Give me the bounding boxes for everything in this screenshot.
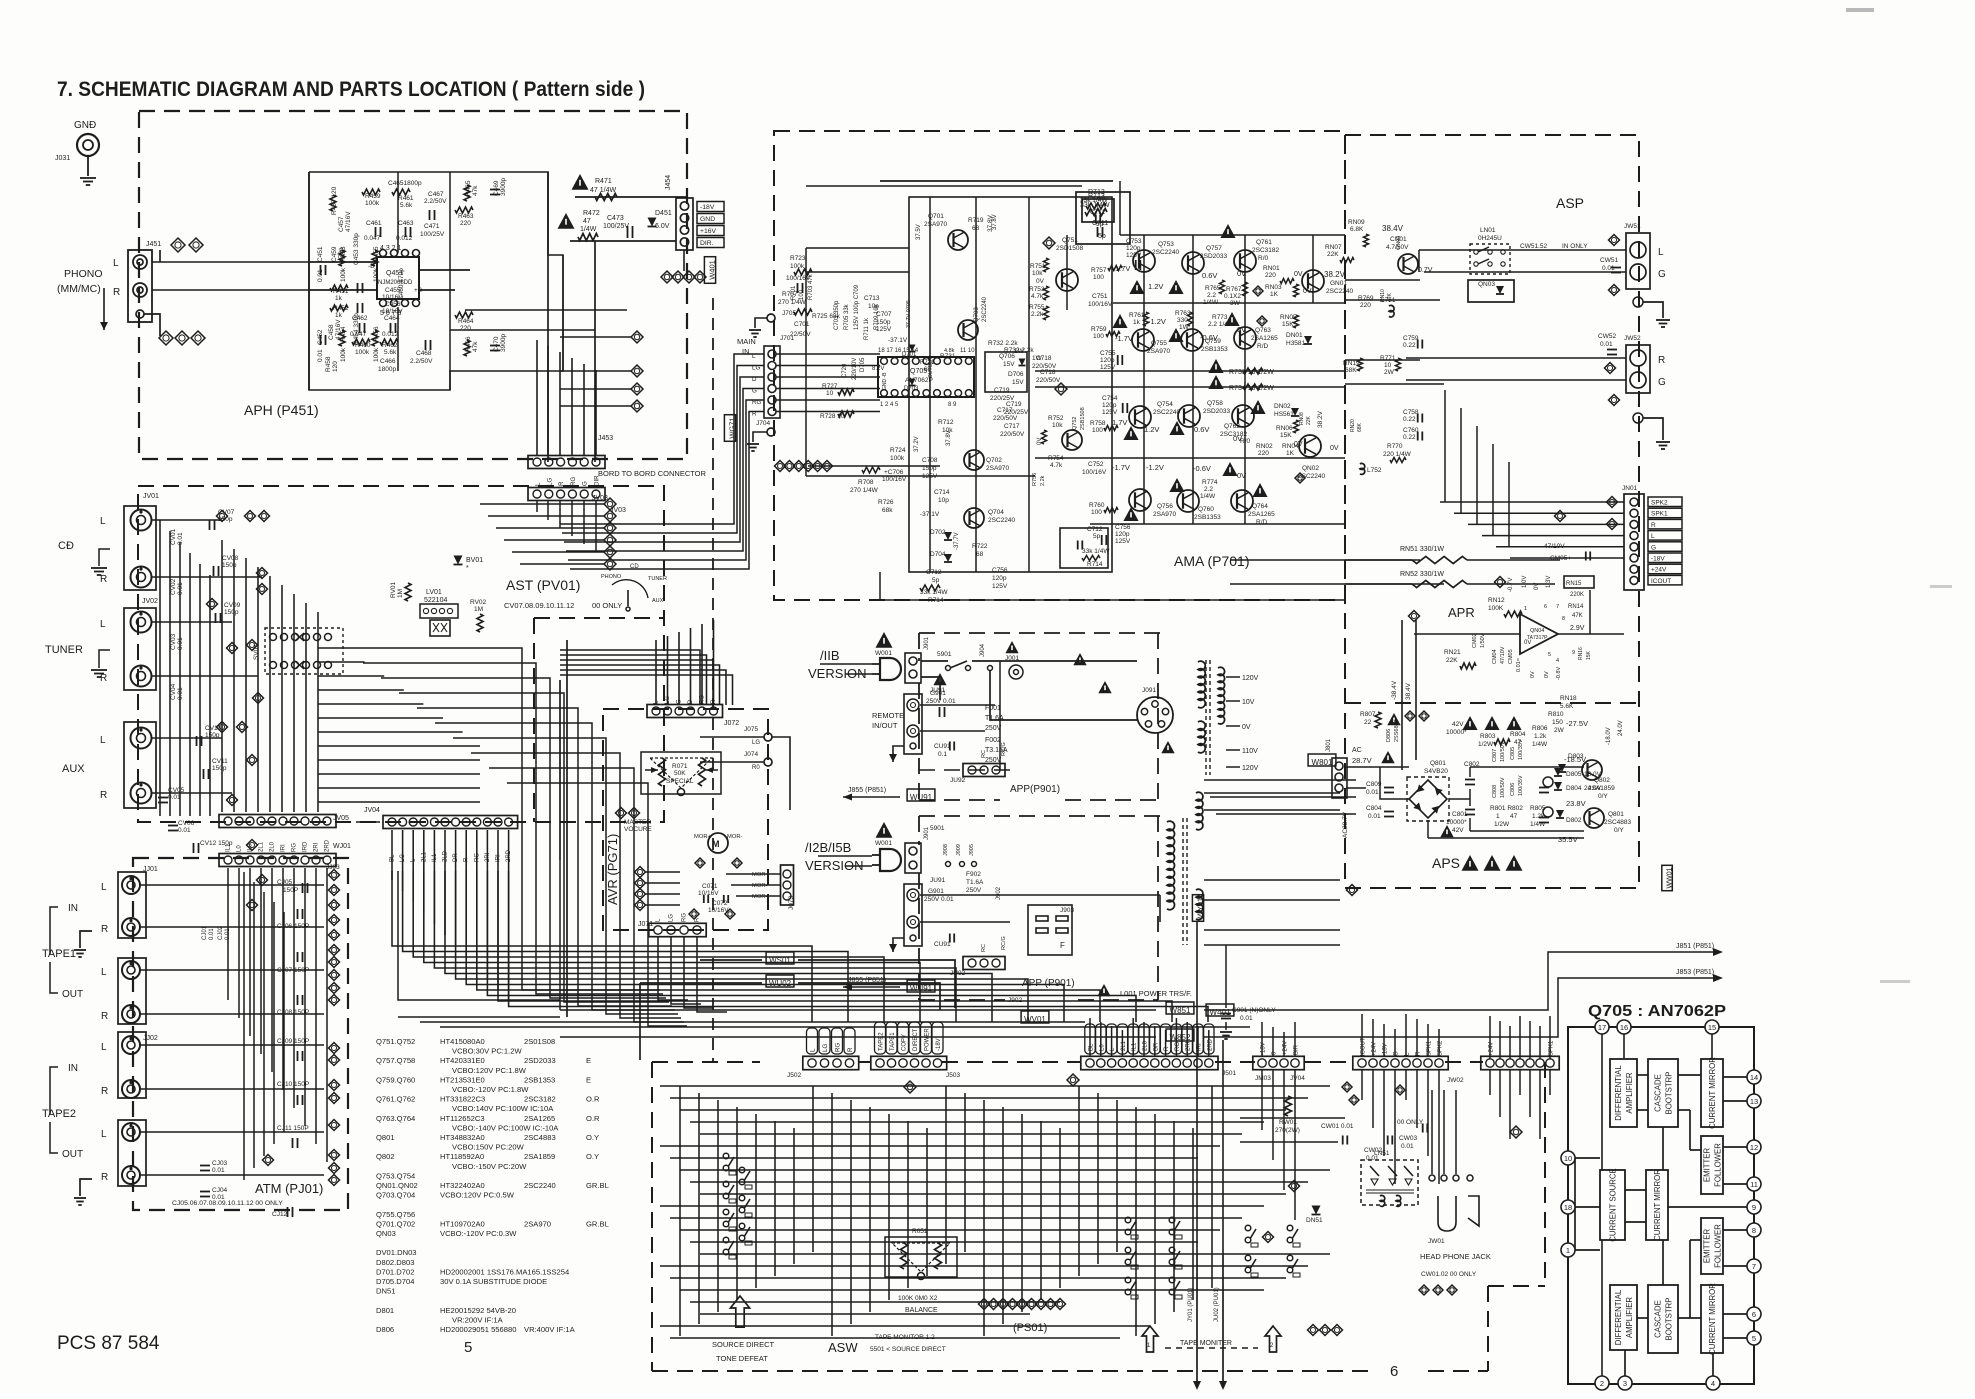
svg-text:0V: 0V bbox=[1330, 445, 1339, 452]
svg-text:R458: R458 bbox=[325, 356, 332, 372]
svg-text:J075: J075 bbox=[744, 726, 758, 733]
svg-text:R071: R071 bbox=[672, 763, 688, 770]
svg-text:JU91: JU91 bbox=[930, 877, 946, 884]
svg-text:JV04: JV04 bbox=[1290, 1075, 1305, 1082]
svg-text:JU92: JU92 bbox=[950, 777, 966, 784]
svg-text:C473: C473 bbox=[607, 215, 624, 222]
svg-text:10000*: 10000* bbox=[1446, 729, 1467, 736]
svg-text:T1.6A: T1.6A bbox=[966, 879, 984, 886]
svg-text:LG: LG bbox=[752, 740, 760, 746]
svg-text:RG: RG bbox=[292, 843, 298, 852]
svg-text:220/50V: 220/50V bbox=[1032, 363, 1057, 370]
svg-text:2.2k: 2.2k bbox=[1031, 311, 1044, 318]
svg-text:+16V: +16V bbox=[700, 228, 717, 235]
svg-text:220 1/4W: 220 1/4W bbox=[1383, 451, 1412, 458]
svg-text:C806: C806 bbox=[1510, 783, 1516, 796]
svg-text:RN14: RN14 bbox=[1568, 604, 1584, 610]
svg-text:R451: R451 bbox=[333, 288, 349, 295]
svg-text:R: R bbox=[101, 1011, 108, 1022]
svg-text:0.7V: 0.7V bbox=[1418, 267, 1433, 274]
svg-text:28.7V: 28.7V bbox=[1352, 756, 1372, 765]
svg-text:1: 1 bbox=[1566, 1246, 1570, 1255]
svg-text:100K 0M0 X2: 100K 0M0 X2 bbox=[898, 1295, 938, 1302]
svg-text:68K: 68K bbox=[1345, 367, 1357, 374]
svg-text:220: 220 bbox=[1265, 272, 1276, 279]
svg-text:R752: R752 bbox=[1048, 415, 1064, 422]
svg-text:10V: 10V bbox=[1242, 699, 1255, 706]
svg-text:1.3V: 1.3V bbox=[1546, 576, 1552, 588]
svg-text:HE20015292 54VB-20: HE20015292 54VB-20 bbox=[440, 1306, 516, 1315]
svg-text:D: D bbox=[752, 376, 757, 383]
svg-text:-27.5V: -27.5V bbox=[1566, 719, 1588, 728]
svg-text:ASP: ASP bbox=[1556, 195, 1584, 211]
svg-text:MOR-: MOR- bbox=[727, 834, 743, 840]
svg-text:D705: D705 bbox=[860, 357, 866, 372]
svg-text:R714: R714 bbox=[1087, 561, 1103, 568]
svg-text:JV02: JV02 bbox=[142, 598, 158, 605]
svg-text:Q701.Q702: Q701.Q702 bbox=[376, 1219, 415, 1228]
svg-text:LG: LG bbox=[669, 914, 675, 922]
svg-text:F002: F002 bbox=[985, 737, 1001, 744]
svg-text:LG: LG bbox=[546, 478, 553, 486]
svg-text:JV04: JV04 bbox=[364, 807, 380, 814]
svg-text:R767: R767 bbox=[1226, 286, 1242, 293]
svg-text:R713: R713 bbox=[1088, 189, 1105, 196]
svg-text:C808: C808 bbox=[1492, 785, 1498, 798]
svg-text:J503: J503 bbox=[946, 1072, 960, 1079]
svg-text:J902: J902 bbox=[996, 886, 1002, 900]
svg-text:150p: 150p bbox=[224, 609, 239, 616]
svg-text:120p: 120p bbox=[1102, 402, 1117, 409]
svg-text:2SD2033: 2SD2033 bbox=[524, 1056, 556, 1065]
svg-text:C471: C471 bbox=[424, 223, 440, 230]
svg-text:R463: R463 bbox=[458, 213, 474, 220]
svg-text:2W: 2W bbox=[1554, 727, 1565, 734]
svg-text:RN03: RN03 bbox=[1265, 284, 1282, 291]
svg-text:R756: R756 bbox=[1032, 473, 1038, 486]
svg-text:47: 47 bbox=[1510, 813, 1518, 820]
svg-text:TAPE2: TAPE2 bbox=[42, 1108, 76, 1120]
svg-text:Q753.Q754: Q753.Q754 bbox=[376, 1171, 415, 1180]
svg-text:-0.8V: -0.8V bbox=[1556, 667, 1562, 680]
svg-text:CV06: CV06 bbox=[178, 820, 195, 827]
svg-text:0.01: 0.01 bbox=[1368, 813, 1381, 820]
svg-text:1.2k: 1.2k bbox=[1534, 733, 1547, 740]
svg-text:1k: 1k bbox=[335, 312, 343, 319]
svg-text:-1.2V: -1.2V bbox=[1146, 463, 1164, 472]
svg-text:CW52: CW52 bbox=[1598, 333, 1616, 340]
svg-text:250V: 250V bbox=[985, 725, 1002, 732]
svg-text:R: R bbox=[101, 924, 108, 935]
svg-text:CJ04: CJ04 bbox=[212, 1187, 228, 1194]
svg-text:QN03: QN03 bbox=[376, 1229, 396, 1238]
svg-text:22K: 22K bbox=[1306, 415, 1312, 425]
svg-text:15K: 15K bbox=[1586, 650, 1592, 660]
svg-text:2SA1265: 2SA1265 bbox=[1248, 511, 1275, 518]
svg-text:0.01: 0.01 bbox=[209, 928, 215, 940]
svg-text:120V: 120V bbox=[1242, 765, 1259, 772]
svg-text:5.6k: 5.6k bbox=[400, 202, 413, 209]
svg-text:CURRENT MIRROR: CURRENT MIRROR bbox=[1708, 1057, 1717, 1129]
svg-text:O.Y: O.Y bbox=[586, 1152, 599, 1161]
svg-text:J091: J091 bbox=[1142, 687, 1156, 694]
svg-text:J453: J453 bbox=[598, 435, 613, 442]
svg-text:CV11: CV11 bbox=[212, 758, 228, 765]
svg-text:8 9: 8 9 bbox=[948, 402, 957, 408]
svg-text:LV01: LV01 bbox=[426, 589, 442, 596]
svg-text:2L0: 2L0 bbox=[270, 841, 276, 852]
svg-text:CV02: CV02 bbox=[170, 578, 177, 595]
svg-text:SV01: SV01 bbox=[253, 644, 260, 660]
svg-text:-38.4V: -38.4V bbox=[1391, 680, 1398, 700]
svg-text:0/Y: 0/Y bbox=[1614, 827, 1624, 834]
svg-text:JW52: JW52 bbox=[1624, 335, 1641, 342]
svg-text:8: 8 bbox=[1562, 616, 1565, 622]
svg-text:47/16V: 47/16V bbox=[335, 319, 342, 340]
svg-text:+C706: +C706 bbox=[884, 469, 904, 476]
svg-text:42V: 42V bbox=[1452, 827, 1464, 834]
svg-text:MAIN: MAIN bbox=[737, 337, 756, 346]
svg-text:68: 68 bbox=[976, 551, 984, 558]
svg-text:MOR-: MOR- bbox=[752, 883, 768, 889]
svg-text:TAPE MONITOR 1.2: TAPE MONITOR 1.2 bbox=[875, 1334, 935, 1341]
svg-text:RN09: RN09 bbox=[1348, 219, 1365, 226]
svg-text:J851 (P851): J851 (P851) bbox=[1676, 943, 1714, 950]
svg-text:42V: 42V bbox=[1452, 721, 1464, 728]
svg-text:0V: 0V bbox=[1036, 278, 1045, 285]
svg-text:HT322402A0: HT322402A0 bbox=[440, 1181, 485, 1190]
svg-text:6: 6 bbox=[1390, 1363, 1398, 1380]
svg-text:5.6K: 5.6K bbox=[1560, 703, 1574, 710]
svg-text:WJ01: WJ01 bbox=[333, 843, 351, 850]
svg-text:125V: 125V bbox=[876, 326, 892, 333]
svg-text:1M: 1M bbox=[474, 606, 483, 613]
svg-text:0.01≈: 0.01≈ bbox=[1516, 658, 1522, 672]
svg-text:220/50V: 220/50V bbox=[993, 415, 1018, 422]
svg-text:RV02: RV02 bbox=[470, 599, 487, 606]
svg-text:LG: LG bbox=[752, 365, 760, 372]
svg-text:DIFFERENTIAL: DIFFERENTIAL bbox=[1614, 1289, 1623, 1345]
svg-text:C466: C466 bbox=[380, 358, 396, 365]
svg-text:R461: R461 bbox=[398, 195, 414, 202]
svg-text:G: G bbox=[752, 388, 757, 395]
svg-text:-1.2V: -1.2V bbox=[1148, 317, 1166, 326]
svg-text:DIR.: DIR. bbox=[700, 240, 714, 247]
svg-text:C467: C467 bbox=[428, 191, 444, 198]
svg-text:150P: 150P bbox=[283, 887, 298, 894]
svg-text:2RD: 2RD bbox=[325, 839, 331, 852]
svg-text:R464: R464 bbox=[458, 318, 474, 325]
svg-text:LN01: LN01 bbox=[1480, 227, 1496, 234]
svg-text:C804: C804 bbox=[1366, 805, 1382, 812]
svg-text:2SD1508: 2SD1508 bbox=[1056, 245, 1083, 252]
svg-text:C755: C755 bbox=[1100, 350, 1116, 357]
svg-text:0.6V: 0.6V bbox=[1194, 425, 1209, 434]
svg-text:2.2k: 2.2k bbox=[1040, 475, 1046, 486]
svg-text:3900p: 3900p bbox=[500, 334, 507, 352]
svg-text:HD200029051 556880: HD200029051 556880 bbox=[440, 1325, 516, 1334]
svg-text:100k: 100k bbox=[355, 349, 370, 356]
svg-text:220/50V: 220/50V bbox=[1000, 431, 1025, 438]
svg-text:HS561: HS561 bbox=[1274, 411, 1294, 418]
svg-text:110V: 110V bbox=[1242, 748, 1258, 755]
svg-text:50K: 50K bbox=[674, 770, 686, 777]
svg-text:10: 10 bbox=[1384, 362, 1392, 369]
svg-text:R: R bbox=[752, 411, 757, 418]
svg-text:2SA1859: 2SA1859 bbox=[524, 1152, 555, 1161]
svg-text:0V: 0V bbox=[1294, 271, 1303, 278]
svg-text:R459: R459 bbox=[365, 193, 381, 200]
svg-text:S4VB20: S4VB20 bbox=[1424, 768, 1448, 775]
svg-text:2SD2033: 2SD2033 bbox=[1200, 253, 1227, 260]
svg-text:-37.7V: -37.7V bbox=[954, 532, 960, 550]
svg-text:HT118592A0: HT118592A0 bbox=[440, 1152, 484, 1161]
svg-text:CM04: CM04 bbox=[1492, 649, 1498, 664]
svg-text:-0.6V: -0.6V bbox=[1193, 464, 1211, 473]
svg-text:CV04: CV04 bbox=[170, 683, 177, 700]
svg-text:R/0: R/0 bbox=[1258, 255, 1269, 262]
svg-text:100: 100 bbox=[1093, 333, 1104, 340]
svg-text:R803: R803 bbox=[1480, 733, 1496, 740]
svg-text:100/16V: 100/16V bbox=[882, 476, 907, 483]
svg-text:0.01: 0.01 bbox=[1600, 341, 1613, 348]
svg-text:RN07: RN07 bbox=[1325, 244, 1342, 251]
svg-text:G: G bbox=[582, 481, 589, 486]
svg-text:F001: F001 bbox=[985, 705, 1001, 712]
svg-text:D804: D804 bbox=[1566, 785, 1582, 792]
svg-text:R472: R472 bbox=[583, 210, 600, 217]
svg-text:TUNER: TUNER bbox=[45, 644, 83, 656]
svg-text:R471: R471 bbox=[595, 178, 612, 185]
svg-text:6.8K: 6.8K bbox=[1350, 226, 1364, 233]
svg-text:L: L bbox=[100, 516, 106, 527]
svg-text:O.Y: O.Y bbox=[586, 1133, 599, 1142]
svg-text:Q759.Q760: Q759.Q760 bbox=[376, 1075, 415, 1084]
svg-text:100k: 100k bbox=[890, 455, 905, 462]
svg-text:00 ONLY: 00 ONLY bbox=[592, 601, 622, 610]
svg-text:AUX: AUX bbox=[652, 598, 664, 604]
svg-text:C462: C462 bbox=[352, 315, 368, 322]
svg-text:JV05: JV05 bbox=[333, 815, 349, 822]
svg-text:24.0V: 24.0V bbox=[1618, 720, 1624, 736]
svg-text:100: 100 bbox=[1091, 509, 1102, 516]
svg-text:100: 100 bbox=[1092, 427, 1103, 434]
svg-text:1/2W: 1/2W bbox=[1494, 821, 1510, 828]
svg-text:D702: D702 bbox=[930, 529, 946, 536]
svg-text:TAPE1: TAPE1 bbox=[42, 948, 76, 960]
svg-text:HT109702A0: HT109702A0 bbox=[440, 1219, 485, 1228]
svg-text:W401: W401 bbox=[708, 260, 717, 280]
svg-text:AMA (P701): AMA (P701) bbox=[1174, 553, 1249, 569]
svg-text:C701: C701 bbox=[794, 321, 810, 328]
svg-text:2SA970: 2SA970 bbox=[524, 1219, 551, 1228]
svg-text:100/16V: 100/16V bbox=[1082, 469, 1107, 476]
svg-text:0.22: 0.22 bbox=[1403, 434, 1416, 441]
svg-text:38.2V: 38.2V bbox=[1324, 270, 1346, 279]
svg-text:0V: 0V bbox=[1544, 671, 1550, 678]
svg-text:G901: G901 bbox=[928, 888, 944, 895]
svg-text:8.2V: 8.2V bbox=[872, 366, 884, 372]
svg-text:F: F bbox=[1060, 941, 1065, 950]
svg-text:IL0: IL0 bbox=[248, 843, 254, 852]
svg-text:CURRENT SOURCE: CURRENT SOURCE bbox=[1609, 1168, 1618, 1242]
svg-text:220K: 220K bbox=[1570, 592, 1584, 598]
svg-text:1K: 1K bbox=[1286, 450, 1295, 457]
svg-text:7: 7 bbox=[1752, 1262, 1756, 1271]
svg-text:BOOTSTRP: BOOTSTRP bbox=[1665, 1072, 1674, 1115]
svg-text:C457: C457 bbox=[338, 216, 345, 232]
svg-text:JV01: JV01 bbox=[143, 493, 159, 500]
svg-text:R460: R460 bbox=[355, 342, 371, 349]
svg-text:5p: 5p bbox=[932, 577, 940, 584]
svg-text:C458: C458 bbox=[328, 324, 335, 340]
svg-text:0V: 0V bbox=[1242, 724, 1251, 731]
svg-text:JW02: JW02 bbox=[1447, 1077, 1464, 1084]
svg-text:DIRECT: DIRECT bbox=[913, 1028, 919, 1051]
svg-text:R771: R771 bbox=[1380, 355, 1396, 362]
svg-text:1.7V: 1.7V bbox=[1112, 418, 1127, 427]
svg-text:R769: R769 bbox=[1358, 295, 1374, 302]
svg-text:OUT: OUT bbox=[62, 989, 83, 1000]
svg-text:(PS01): (PS01) bbox=[1013, 1322, 1047, 1334]
svg-text:38.4V: 38.4V bbox=[1382, 224, 1404, 233]
svg-text:D801: D801 bbox=[376, 1306, 394, 1315]
svg-text:6.0V: 6.0V bbox=[655, 223, 670, 230]
svg-text:47 1/4W: 47 1/4W bbox=[590, 187, 616, 194]
svg-text:CM02: CM02 bbox=[1472, 633, 1478, 648]
svg-text:(MM/MC): (MM/MC) bbox=[57, 283, 101, 295]
svg-text:TUNER: TUNER bbox=[648, 576, 667, 582]
svg-text:Q706: Q706 bbox=[999, 353, 1015, 360]
svg-text:IL1: IL1 bbox=[226, 843, 232, 852]
svg-text:/IIB: /IIB bbox=[820, 648, 840, 663]
svg-text:CW01.02 00 ONLY: CW01.02 00 ONLY bbox=[1421, 1271, 1477, 1278]
svg-text:22K: 22K bbox=[1446, 657, 1458, 664]
svg-text:Q757.Q758: Q757.Q758 bbox=[376, 1056, 415, 1065]
svg-text:2SC3182: 2SC3182 bbox=[1252, 247, 1279, 254]
svg-text:-18V: -18V bbox=[1651, 556, 1665, 563]
svg-text:Q703: Q703 bbox=[974, 307, 980, 322]
svg-text:100K: 100K bbox=[1488, 605, 1504, 612]
svg-text:J031: J031 bbox=[55, 155, 70, 162]
svg-text:125V: 125V bbox=[992, 583, 1008, 590]
svg-text:HT331822C3: HT331822C3 bbox=[440, 1095, 485, 1104]
svg-text:-18.0V: -18.0V bbox=[1606, 727, 1612, 745]
svg-text:R711 1k: R711 1k bbox=[864, 317, 870, 340]
svg-text:68k: 68k bbox=[882, 507, 893, 514]
svg-text:2RI: 2RI bbox=[314, 842, 320, 852]
svg-text:2SA1265: 2SA1265 bbox=[524, 1114, 555, 1123]
svg-text:DN01: DN01 bbox=[1286, 332, 1303, 339]
svg-text:JW51: JW51 bbox=[1624, 223, 1641, 230]
svg-text:11: 11 bbox=[1750, 1180, 1758, 1189]
svg-text:0V: 0V bbox=[1233, 434, 1242, 443]
svg-text:47k: 47k bbox=[472, 185, 479, 196]
svg-text:22: 22 bbox=[1364, 719, 1372, 726]
svg-text:ATM (PJ01): ATM (PJ01) bbox=[255, 1181, 323, 1196]
svg-text:VCBO:30V PC:1.2W: VCBO:30V PC:1.2W bbox=[452, 1047, 522, 1056]
svg-text:15: 15 bbox=[1708, 1023, 1716, 1032]
svg-text:D703: D703 bbox=[904, 386, 919, 392]
svg-text:HT112652C3: HT112652C3 bbox=[440, 1114, 485, 1123]
svg-text:2.2/50V: 2.2/50V bbox=[410, 358, 433, 365]
svg-text:RC/G: RC/G bbox=[1001, 936, 1007, 950]
svg-text:Q802: Q802 bbox=[376, 1152, 395, 1161]
svg-text:GNĐ: GNĐ bbox=[74, 120, 96, 131]
svg-text:8: 8 bbox=[1752, 1226, 1756, 1235]
svg-text:Q764: Q764 bbox=[1252, 503, 1268, 510]
svg-text:RN02: RN02 bbox=[1256, 443, 1273, 450]
svg-text:C759: C759 bbox=[1403, 335, 1419, 342]
svg-text:Q761.Q762: Q761.Q762 bbox=[376, 1095, 415, 1104]
svg-text:TONE DEFEAT: TONE DEFEAT bbox=[716, 1354, 768, 1363]
svg-text:QN02: QN02 bbox=[1302, 465, 1319, 472]
svg-text:250V: 250V bbox=[966, 887, 982, 894]
svg-text:L: L bbox=[113, 258, 119, 269]
svg-text:+24V: +24V bbox=[1651, 567, 1667, 574]
svg-text:VCBO:-150V PC:20W: VCBO:-150V PC:20W bbox=[452, 1162, 527, 1171]
svg-text:QN03: QN03 bbox=[1478, 281, 1495, 288]
svg-text:R: R bbox=[1651, 522, 1656, 529]
svg-text:CV03: CV03 bbox=[170, 633, 177, 650]
svg-text:HT348832A0: HT348832A0 bbox=[440, 1133, 485, 1142]
svg-text:C758: C758 bbox=[1403, 409, 1419, 416]
svg-text:5p: 5p bbox=[1093, 533, 1101, 540]
svg-text:15K: 15K bbox=[1280, 432, 1292, 439]
svg-text:10: 10 bbox=[826, 390, 834, 397]
svg-text:0.01: 0.01 bbox=[212, 1167, 225, 1174]
svg-text:7: 7 bbox=[1556, 604, 1559, 610]
svg-text:MOR+: MOR+ bbox=[694, 834, 712, 840]
svg-text:O.R: O.R bbox=[586, 1114, 600, 1123]
svg-text:2: 2 bbox=[1600, 1379, 1604, 1388]
svg-text:L: L bbox=[1658, 247, 1664, 258]
svg-text:2.2: 2.2 bbox=[1204, 486, 1213, 493]
svg-text:1/4W: 1/4W bbox=[1532, 741, 1548, 748]
svg-text:C713: C713 bbox=[864, 295, 880, 302]
svg-text:C756: C756 bbox=[992, 567, 1008, 574]
svg-text:CV08: CV08 bbox=[222, 555, 239, 562]
svg-text:6: 6 bbox=[1752, 1310, 1756, 1319]
svg-text:R757: R757 bbox=[1091, 267, 1107, 274]
svg-text:H3581: H3581 bbox=[1286, 340, 1306, 347]
svg-text:L: L bbox=[101, 1042, 107, 1053]
svg-text:C459: C459 bbox=[331, 246, 338, 262]
svg-text:2SC4883: 2SC4883 bbox=[524, 1133, 556, 1142]
svg-text:C718: C718 bbox=[1036, 355, 1052, 362]
svg-text:0V: 0V bbox=[1530, 671, 1536, 678]
svg-text:2S01S08: 2S01S08 bbox=[524, 1037, 555, 1046]
svg-text:VCBO:150V PC:20W: VCBO:150V PC:20W bbox=[452, 1143, 525, 1152]
svg-text:R732 2.2k: R732 2.2k bbox=[988, 340, 1018, 347]
svg-text:47k: 47k bbox=[472, 341, 479, 352]
svg-text:J903: J903 bbox=[1060, 907, 1074, 914]
svg-text:CASCADE: CASCADE bbox=[1654, 1074, 1663, 1112]
svg-text:Q751: Q751 bbox=[1062, 237, 1078, 244]
svg-text:VCBO:-120V PC:1.8W: VCBO:-120V PC:1.8W bbox=[452, 1085, 529, 1094]
svg-text:C468: C468 bbox=[416, 350, 432, 357]
svg-text:100/16V: 100/16V bbox=[1088, 301, 1113, 308]
svg-text:100/50V: 100/50V bbox=[1500, 741, 1506, 762]
svg-text:RW01: RW01 bbox=[1279, 1119, 1297, 1126]
svg-text:1.7V: 1.7V bbox=[1115, 264, 1130, 273]
svg-text:1: 1 bbox=[1496, 813, 1500, 820]
svg-text:APH (P451): APH (P451) bbox=[244, 402, 319, 418]
svg-text:100/35V: 100/35V bbox=[1518, 775, 1524, 796]
svg-text:2SA970: 2SA970 bbox=[1147, 348, 1171, 355]
svg-text:RN16: RN16 bbox=[1578, 647, 1584, 660]
svg-text:MOR-: MOR- bbox=[752, 894, 768, 900]
